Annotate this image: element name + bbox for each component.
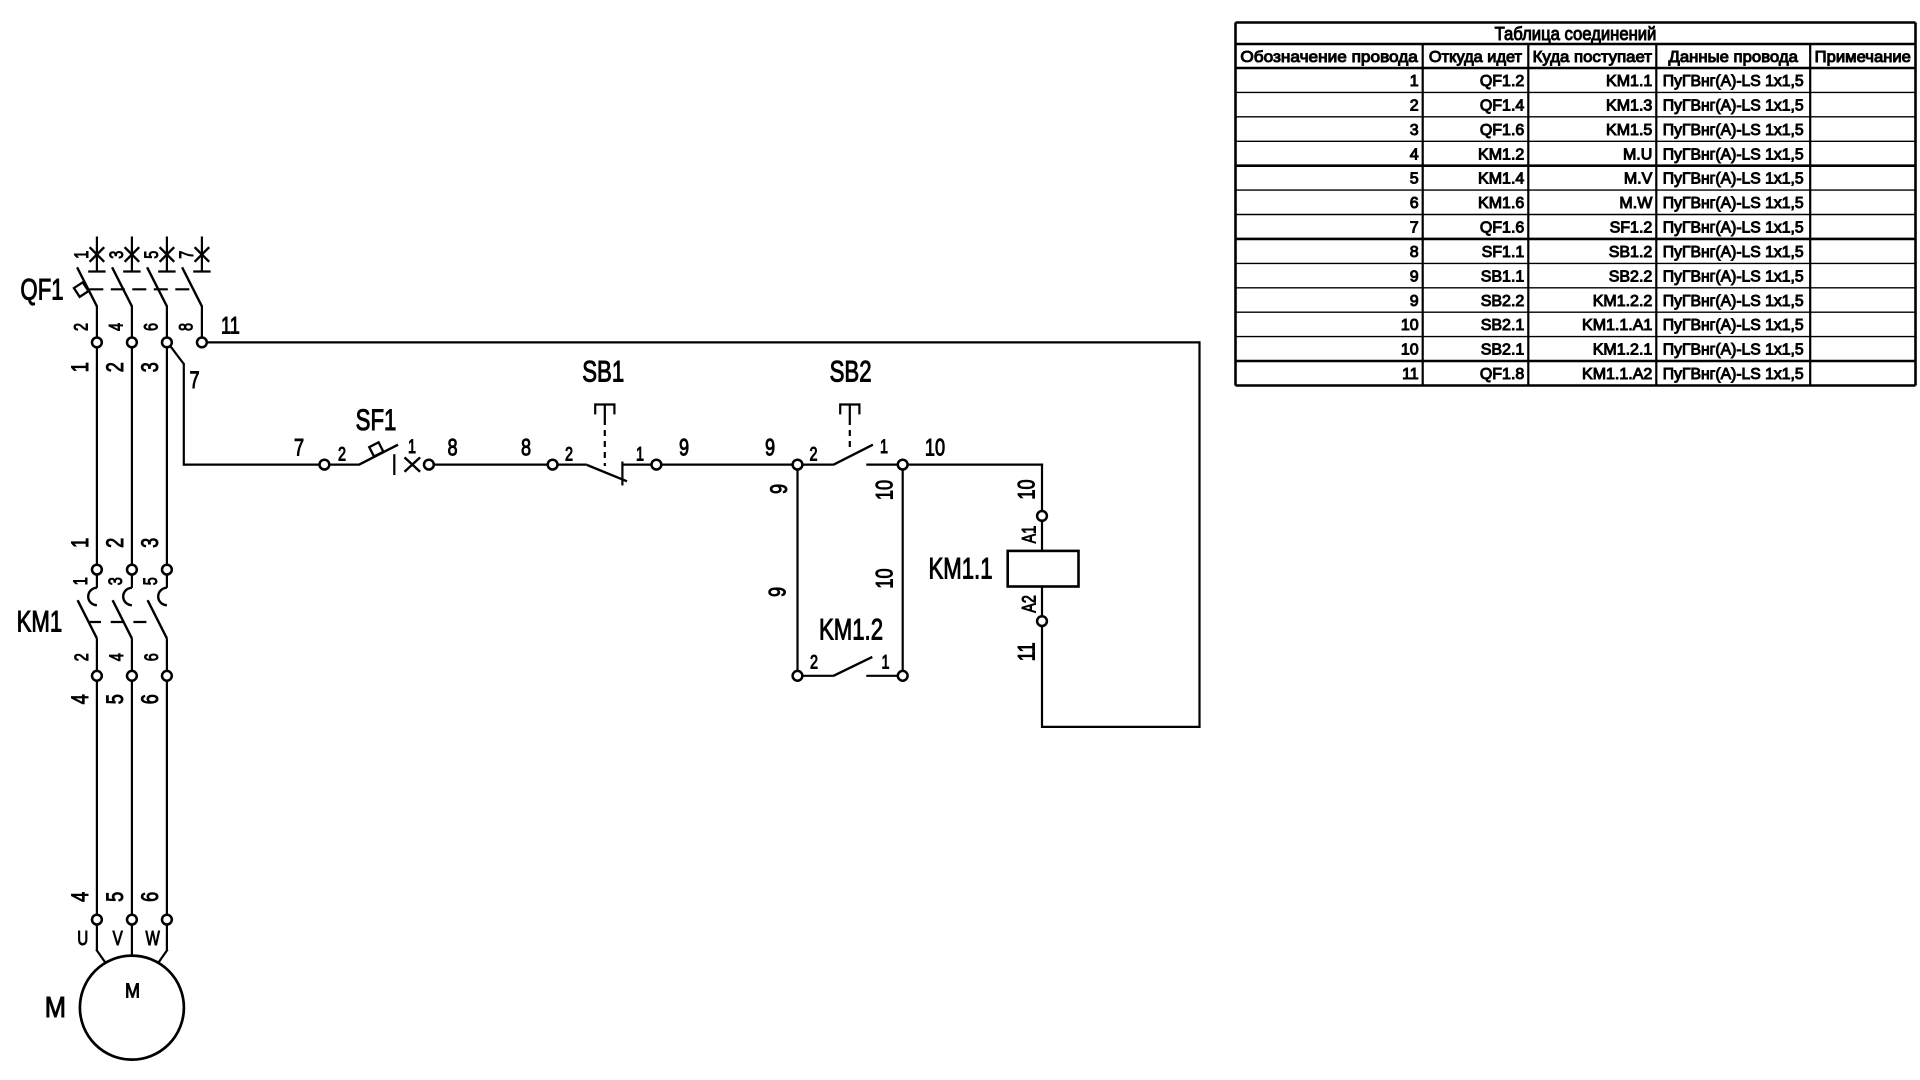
wire 3 label (lower) <box>135 538 163 548</box>
contact KM1.2 label <box>819 612 883 646</box>
svg-text:9: 9 <box>763 587 791 597</box>
SB1 pin 2 label <box>565 442 573 465</box>
svg-text:1: 1 <box>408 435 416 458</box>
svg-text:SB1.2: SB1.2 <box>1609 244 1653 261</box>
svg-text:1: 1 <box>65 538 93 548</box>
wire 7 label (control line) <box>294 433 304 461</box>
contactor KM1 pole 2 contact <box>113 565 137 681</box>
wire 5 label (lower) <box>100 892 128 902</box>
breaker QF1 label <box>20 272 63 306</box>
svg-text:2: 2 <box>1410 97 1419 114</box>
wire 4 label (upper) <box>65 694 93 704</box>
svg-text:5: 5 <box>1410 171 1419 188</box>
svg-text:10: 10 <box>1401 342 1419 359</box>
svg-text:KM1.5: KM1.5 <box>1606 122 1652 139</box>
wire 2 label (upper) <box>100 362 128 372</box>
QF1 terminal 4 <box>127 338 137 348</box>
svg-text:1: 1 <box>1410 73 1419 90</box>
wire 6 (KM1 to motor) <box>166 681 168 914</box>
svg-text:A1: A1 <box>1017 526 1040 544</box>
QF1 pin 2 label <box>69 323 92 331</box>
QF1 pin 4 label <box>104 323 127 331</box>
node KM1.1.A1 terminal <box>1037 511 1047 521</box>
svg-text:SF1.1: SF1.1 <box>1482 244 1525 261</box>
wire 11 down from A2 <box>1041 627 1043 729</box>
svg-text:Данные провода: Данные провода <box>1669 49 1799 66</box>
QF1 pin 1 label <box>70 251 93 259</box>
svg-text:2: 2 <box>809 442 817 465</box>
wire 11 label (coil branch) <box>1012 642 1040 661</box>
wire SB1.2 to blade <box>559 464 587 466</box>
svg-text:10: 10 <box>1401 317 1419 334</box>
wire 9 label (right) <box>765 433 775 461</box>
svg-text:6: 6 <box>139 323 162 331</box>
wire KM1.2.2 to blade <box>803 675 833 677</box>
svg-text:10: 10 <box>870 568 898 588</box>
node KM1.2.1 terminal <box>898 671 908 681</box>
svg-text:9: 9 <box>1410 268 1419 285</box>
svg-text:M: M <box>125 980 140 1002</box>
svg-text:ПуГВнг(А)-LS 1x1,5: ПуГВнг(А)-LS 1x1,5 <box>1663 366 1804 383</box>
contactor KM1 label <box>17 604 63 638</box>
wire 9 label (vertical upper) <box>764 484 792 494</box>
svg-text:ПуГВнг(А)-LS 1x1,5: ПуГВнг(А)-LS 1x1,5 <box>1663 244 1804 261</box>
svg-text:QF1.2: QF1.2 <box>1480 73 1525 90</box>
svg-text:ПуГВнг(А)-LS 1x1,5: ПуГВнг(А)-LS 1x1,5 <box>1663 97 1804 114</box>
wire 8 (SF1.1 to SB1.2) <box>435 464 547 466</box>
motor terminal V <box>127 915 137 925</box>
svg-text:M.V: M.V <box>1624 171 1653 188</box>
svg-text:V: V <box>113 927 123 950</box>
svg-text:M.U: M.U <box>1623 146 1652 163</box>
SB1 actuator rod (dashed) <box>604 419 606 466</box>
svg-text:SB1.1: SB1.1 <box>1481 268 1525 285</box>
SB2 pin 2 label <box>809 442 817 465</box>
motor pin U label <box>77 927 88 950</box>
svg-text:9: 9 <box>679 433 689 461</box>
wire 10 label (vertical upper) <box>870 480 898 500</box>
svg-text:QF1.4: QF1.4 <box>1480 97 1525 114</box>
wire 9 vertical (SB2.2 to KM1.2.2) <box>796 471 798 671</box>
svg-text:9: 9 <box>1410 293 1419 310</box>
wire 8 label (left) <box>447 433 457 461</box>
QF1 pin 6 label <box>139 323 162 331</box>
svg-text:2: 2 <box>100 362 128 372</box>
svg-text:SB2: SB2 <box>830 354 872 388</box>
QF1 pin 8 label <box>174 323 197 331</box>
svg-text:1: 1 <box>636 442 644 465</box>
breaker QF1 pole 4 contact <box>182 237 211 337</box>
svg-text:2: 2 <box>100 538 128 548</box>
svg-text:11: 11 <box>221 311 240 339</box>
svg-text:10: 10 <box>925 433 945 461</box>
svg-text:4: 4 <box>1410 146 1419 163</box>
table grid vertical lines <box>1236 23 1916 386</box>
KM1.1 pin A2 label <box>1017 595 1040 613</box>
svg-text:3: 3 <box>135 362 163 372</box>
QF1 pin 7 label <box>175 251 198 259</box>
contactor KM1 pole 3 contact <box>148 565 172 681</box>
wire 10 label (vertical lower) <box>870 568 898 588</box>
svg-text:Обозначение провода: Обозначение провода <box>1240 49 1418 66</box>
breaker SF1 blade <box>359 445 399 465</box>
KM1 pin 2 label <box>70 653 93 661</box>
wire 9 label (vertical lower) <box>763 587 791 597</box>
svg-text:QF1.8: QF1.8 <box>1480 366 1525 383</box>
QF1 mechanical link (dashed) <box>89 288 193 290</box>
svg-text:4: 4 <box>105 653 128 661</box>
motor lead W <box>159 925 168 962</box>
svg-text:ПуГВнг(А)-LS 1x1,5: ПуГВнг(А)-LS 1x1,5 <box>1663 268 1804 285</box>
QF1 pin 3 label <box>105 251 128 259</box>
svg-text:KM1.6: KM1.6 <box>1478 195 1524 212</box>
table title <box>1495 23 1657 44</box>
svg-text:1: 1 <box>881 650 889 673</box>
svg-text:3: 3 <box>104 577 127 585</box>
wire 9 (SB1.1 to SB2.2) <box>662 464 791 466</box>
svg-text:SB1: SB1 <box>582 354 624 388</box>
wire 9 label (left) <box>679 433 689 461</box>
KM1 pin 3 label <box>104 577 127 585</box>
svg-text:1: 1 <box>69 577 92 585</box>
svg-text:SF1.2: SF1.2 <box>1610 220 1653 237</box>
svg-text:W: W <box>145 927 159 950</box>
svg-text:ПуГВнг(А)-LS 1x1,5: ПуГВнг(А)-LS 1x1,5 <box>1663 73 1804 90</box>
wire A1 to coil <box>1041 521 1043 551</box>
KM1 pin 6 label <box>140 653 163 661</box>
wire 10 label <box>925 433 945 461</box>
KM1.2 pin 2 label <box>810 650 818 673</box>
svg-text:7: 7 <box>294 433 304 461</box>
wire 6 label (upper) <box>135 694 163 704</box>
svg-text:Куда поступает: Куда поступает <box>1533 49 1653 66</box>
svg-text:SB2.2: SB2.2 <box>1609 268 1653 285</box>
svg-text:5: 5 <box>139 577 162 585</box>
wire 5 label (upper) <box>100 694 128 704</box>
svg-text:QF1: QF1 <box>20 272 63 306</box>
wire blade to KM1.2.1 <box>866 675 897 677</box>
svg-text:2: 2 <box>69 323 92 331</box>
svg-text:A2: A2 <box>1017 595 1040 613</box>
SB2 actuator head <box>840 403 859 419</box>
svg-text:KM1.1: KM1.1 <box>1606 73 1652 90</box>
motor pin W label <box>145 927 159 950</box>
motor lead U <box>96 925 105 962</box>
svg-text:4: 4 <box>65 892 93 902</box>
svg-text:7: 7 <box>175 251 198 259</box>
svg-text:1: 1 <box>880 435 888 458</box>
node SB2.2 junction terminal <box>793 460 803 470</box>
svg-text:ПуГВнг(А)-LS 1x1,5: ПуГВнг(А)-LS 1x1,5 <box>1663 122 1804 139</box>
table data rows <box>1401 73 1804 383</box>
svg-text:8: 8 <box>1410 244 1419 261</box>
svg-text:4: 4 <box>104 323 127 331</box>
push-button SB1 label <box>582 354 624 388</box>
table grid horizontal lines <box>1236 23 1916 386</box>
wire blade to SB1.1 <box>622 464 651 466</box>
SF1 breaker X symbol <box>405 457 421 471</box>
svg-text:7: 7 <box>189 365 199 393</box>
SF1 actuator square <box>369 442 383 456</box>
svg-text:8: 8 <box>521 433 531 461</box>
wire 11 label <box>221 311 240 339</box>
svg-text:ПуГВнг(А)-LS 1x1,5: ПуГВнг(А)-LS 1x1,5 <box>1663 317 1804 334</box>
wire coil to A2 <box>1041 587 1043 616</box>
svg-text:KM1.1.A2: KM1.1.A2 <box>1582 366 1652 383</box>
QF1 actuator square <box>74 282 89 297</box>
svg-text:10: 10 <box>1012 479 1040 499</box>
svg-text:KM1.1: KM1.1 <box>928 551 992 585</box>
motor inner M label <box>125 980 140 1002</box>
wire 2 (QF1 to KM1) <box>131 348 133 564</box>
motor terminal U <box>92 915 102 925</box>
node SF1.2 terminal <box>320 460 330 470</box>
svg-text:SB2.2: SB2.2 <box>1481 293 1525 310</box>
wire 3 (QF1 to KM1) <box>166 348 168 564</box>
svg-text:6: 6 <box>1410 195 1419 212</box>
svg-text:KM1.1.A1: KM1.1.A1 <box>1582 317 1652 334</box>
svg-text:11: 11 <box>1402 366 1419 383</box>
wire 8 label (right) <box>521 433 531 461</box>
motor M1 circle <box>80 956 184 1060</box>
wire 3 label (upper) <box>135 362 163 372</box>
KM1 mechanical link (dashed) <box>88 621 148 623</box>
wire 5 (KM1 to motor) <box>131 681 133 914</box>
wire to SB2.1 <box>866 464 897 466</box>
svg-text:ПуГВнг(А)-LS 1x1,5: ПуГВнг(А)-LS 1x1,5 <box>1663 342 1804 359</box>
wire 6 label (lower) <box>135 892 163 902</box>
SB1 actuator head <box>595 403 614 419</box>
breaker SF1 label <box>356 403 397 437</box>
svg-text:6: 6 <box>135 892 163 902</box>
svg-text:KM1: KM1 <box>17 604 63 638</box>
contactor contact KM1.2 blade <box>833 657 872 676</box>
QF1 pin 5 label <box>140 251 163 259</box>
svg-text:SB2.1: SB2.1 <box>1481 317 1525 334</box>
svg-text:3: 3 <box>135 538 163 548</box>
svg-text:1: 1 <box>70 251 93 259</box>
svg-text:U: U <box>77 927 88 950</box>
svg-text:KM1.2: KM1.2 <box>819 612 883 646</box>
node SB1.1 terminal <box>652 460 662 470</box>
svg-text:6: 6 <box>140 653 163 661</box>
svg-text:6: 6 <box>135 694 163 704</box>
svg-text:Таблица соединений: Таблица соединений <box>1495 23 1657 44</box>
SB1 fixed contact bar <box>621 462 623 486</box>
svg-text:5: 5 <box>100 694 128 704</box>
svg-text:5: 5 <box>100 892 128 902</box>
wire 1 (QF1 to KM1) <box>96 348 98 564</box>
wire 10 vertical (SB2.1 to KM1.2.1) <box>902 471 904 671</box>
wire 7 (QF1.6 to SF1) <box>170 346 319 466</box>
motor terminal W <box>162 915 172 925</box>
QF1 terminal 6 <box>162 338 172 348</box>
svg-text:10: 10 <box>870 480 898 500</box>
SF1 fixed contact bar <box>393 454 395 475</box>
wire SF1.2 to blade <box>330 464 358 466</box>
coil KM1.1 <box>1008 551 1079 587</box>
svg-text:KM1.2.2: KM1.2.2 <box>1593 293 1653 310</box>
KM1 pin 4 label <box>105 653 128 661</box>
wire 2 label (lower) <box>100 538 128 548</box>
svg-text:SF1: SF1 <box>356 403 397 437</box>
SF1 pin 2 label <box>338 442 346 465</box>
svg-text:7: 7 <box>1410 220 1419 237</box>
svg-text:2: 2 <box>565 442 573 465</box>
contactor KM1 pole 1 contact <box>78 565 102 681</box>
svg-text:Откуда идет: Откуда идет <box>1429 49 1523 66</box>
breaker QF1 pole 3 contact <box>147 237 176 337</box>
SF1 pin 1 label <box>408 435 416 458</box>
KM1 pin 1 label <box>69 577 92 585</box>
svg-text:M: M <box>45 991 66 1024</box>
wire 1 label (lower) <box>65 538 93 548</box>
wire 10 down to A1 <box>1041 464 1043 511</box>
svg-text:9: 9 <box>764 484 792 494</box>
svg-text:5: 5 <box>140 251 163 259</box>
wire 4 label (lower) <box>65 892 93 902</box>
wire 4 (KM1 to motor) <box>96 681 98 914</box>
svg-text:8: 8 <box>174 323 197 331</box>
QF1 terminal 2 <box>92 338 102 348</box>
node SB2.1 terminal <box>898 460 908 470</box>
SB2 pin 1 label <box>880 435 888 458</box>
wire SB2.2 to blade <box>803 464 833 466</box>
node SB1.2 terminal <box>548 460 558 470</box>
KM1 pin 5 label <box>139 577 162 585</box>
wire 7 label (vertical run) <box>189 365 199 393</box>
svg-text:ПуГВнг(А)-LS 1x1,5: ПуГВнг(А)-LS 1x1,5 <box>1663 171 1804 188</box>
node KM1.2.2 terminal <box>793 671 803 681</box>
wire 1 label (upper) <box>65 362 93 372</box>
svg-text:KM1.2: KM1.2 <box>1478 146 1524 163</box>
push-button SB1 blade <box>587 465 627 481</box>
KM1.2 pin 1 label <box>881 650 889 673</box>
svg-text:ПуГВнг(А)-LS 1x1,5: ПуГВнг(А)-LS 1x1,5 <box>1663 220 1804 237</box>
wire 10 label (coil branch) <box>1012 479 1040 499</box>
push-button SB2 blade <box>833 445 873 465</box>
svg-text:KM1.4: KM1.4 <box>1478 171 1524 188</box>
svg-text:8: 8 <box>447 433 457 461</box>
svg-text:3: 3 <box>1410 122 1419 139</box>
svg-text:ПуГВнг(А)-LS 1x1,5: ПуГВнг(А)-LS 1x1,5 <box>1663 195 1804 212</box>
motor M label <box>45 991 66 1024</box>
wire 10 (SB2.1 to KM1.1.A1) <box>909 464 1044 466</box>
svg-text:ПуГВнг(А)-LS 1x1,5: ПуГВнг(А)-LS 1x1,5 <box>1663 146 1804 163</box>
push-button SB2 label <box>830 354 872 388</box>
QF1 terminal 8 <box>197 338 207 348</box>
svg-text:SB2.1: SB2.1 <box>1481 342 1525 359</box>
svg-text:M.W: M.W <box>1619 195 1653 212</box>
svg-text:1: 1 <box>65 362 93 372</box>
svg-text:2: 2 <box>70 653 93 661</box>
svg-text:4: 4 <box>65 694 93 704</box>
motor lead V <box>131 925 133 956</box>
svg-text:9: 9 <box>765 433 775 461</box>
svg-text:QF1.6: QF1.6 <box>1480 122 1525 139</box>
coil KM1.1 label <box>928 551 992 585</box>
svg-text:ПуГВнг(А)-LS 1x1,5: ПуГВнг(А)-LS 1x1,5 <box>1663 293 1804 310</box>
svg-text:KM1.3: KM1.3 <box>1606 97 1652 114</box>
svg-text:3: 3 <box>105 251 128 259</box>
svg-text:2: 2 <box>810 650 818 673</box>
KM1.1 pin A1 label <box>1017 526 1040 544</box>
svg-text:KM1.2.1: KM1.2.1 <box>1593 342 1653 359</box>
node SF1.1 terminal <box>424 460 434 470</box>
svg-text:11: 11 <box>1012 642 1040 661</box>
SB1 pin 1 label <box>636 442 644 465</box>
breaker QF1 pole 1 contact <box>77 237 106 337</box>
node KM1.1.A2 terminal <box>1037 616 1047 626</box>
wire 11 (QF1.8 to KM1.1.A2 loop) <box>208 341 1201 727</box>
breaker QF1 pole 2 contact <box>112 237 141 337</box>
svg-text:Примечание: Примечание <box>1815 49 1911 66</box>
SB2 actuator rod (dashed) <box>849 419 851 452</box>
svg-text:QF1.6: QF1.6 <box>1480 220 1525 237</box>
table header row <box>1240 49 1911 66</box>
svg-text:2: 2 <box>338 442 346 465</box>
motor pin V label <box>113 927 123 950</box>
